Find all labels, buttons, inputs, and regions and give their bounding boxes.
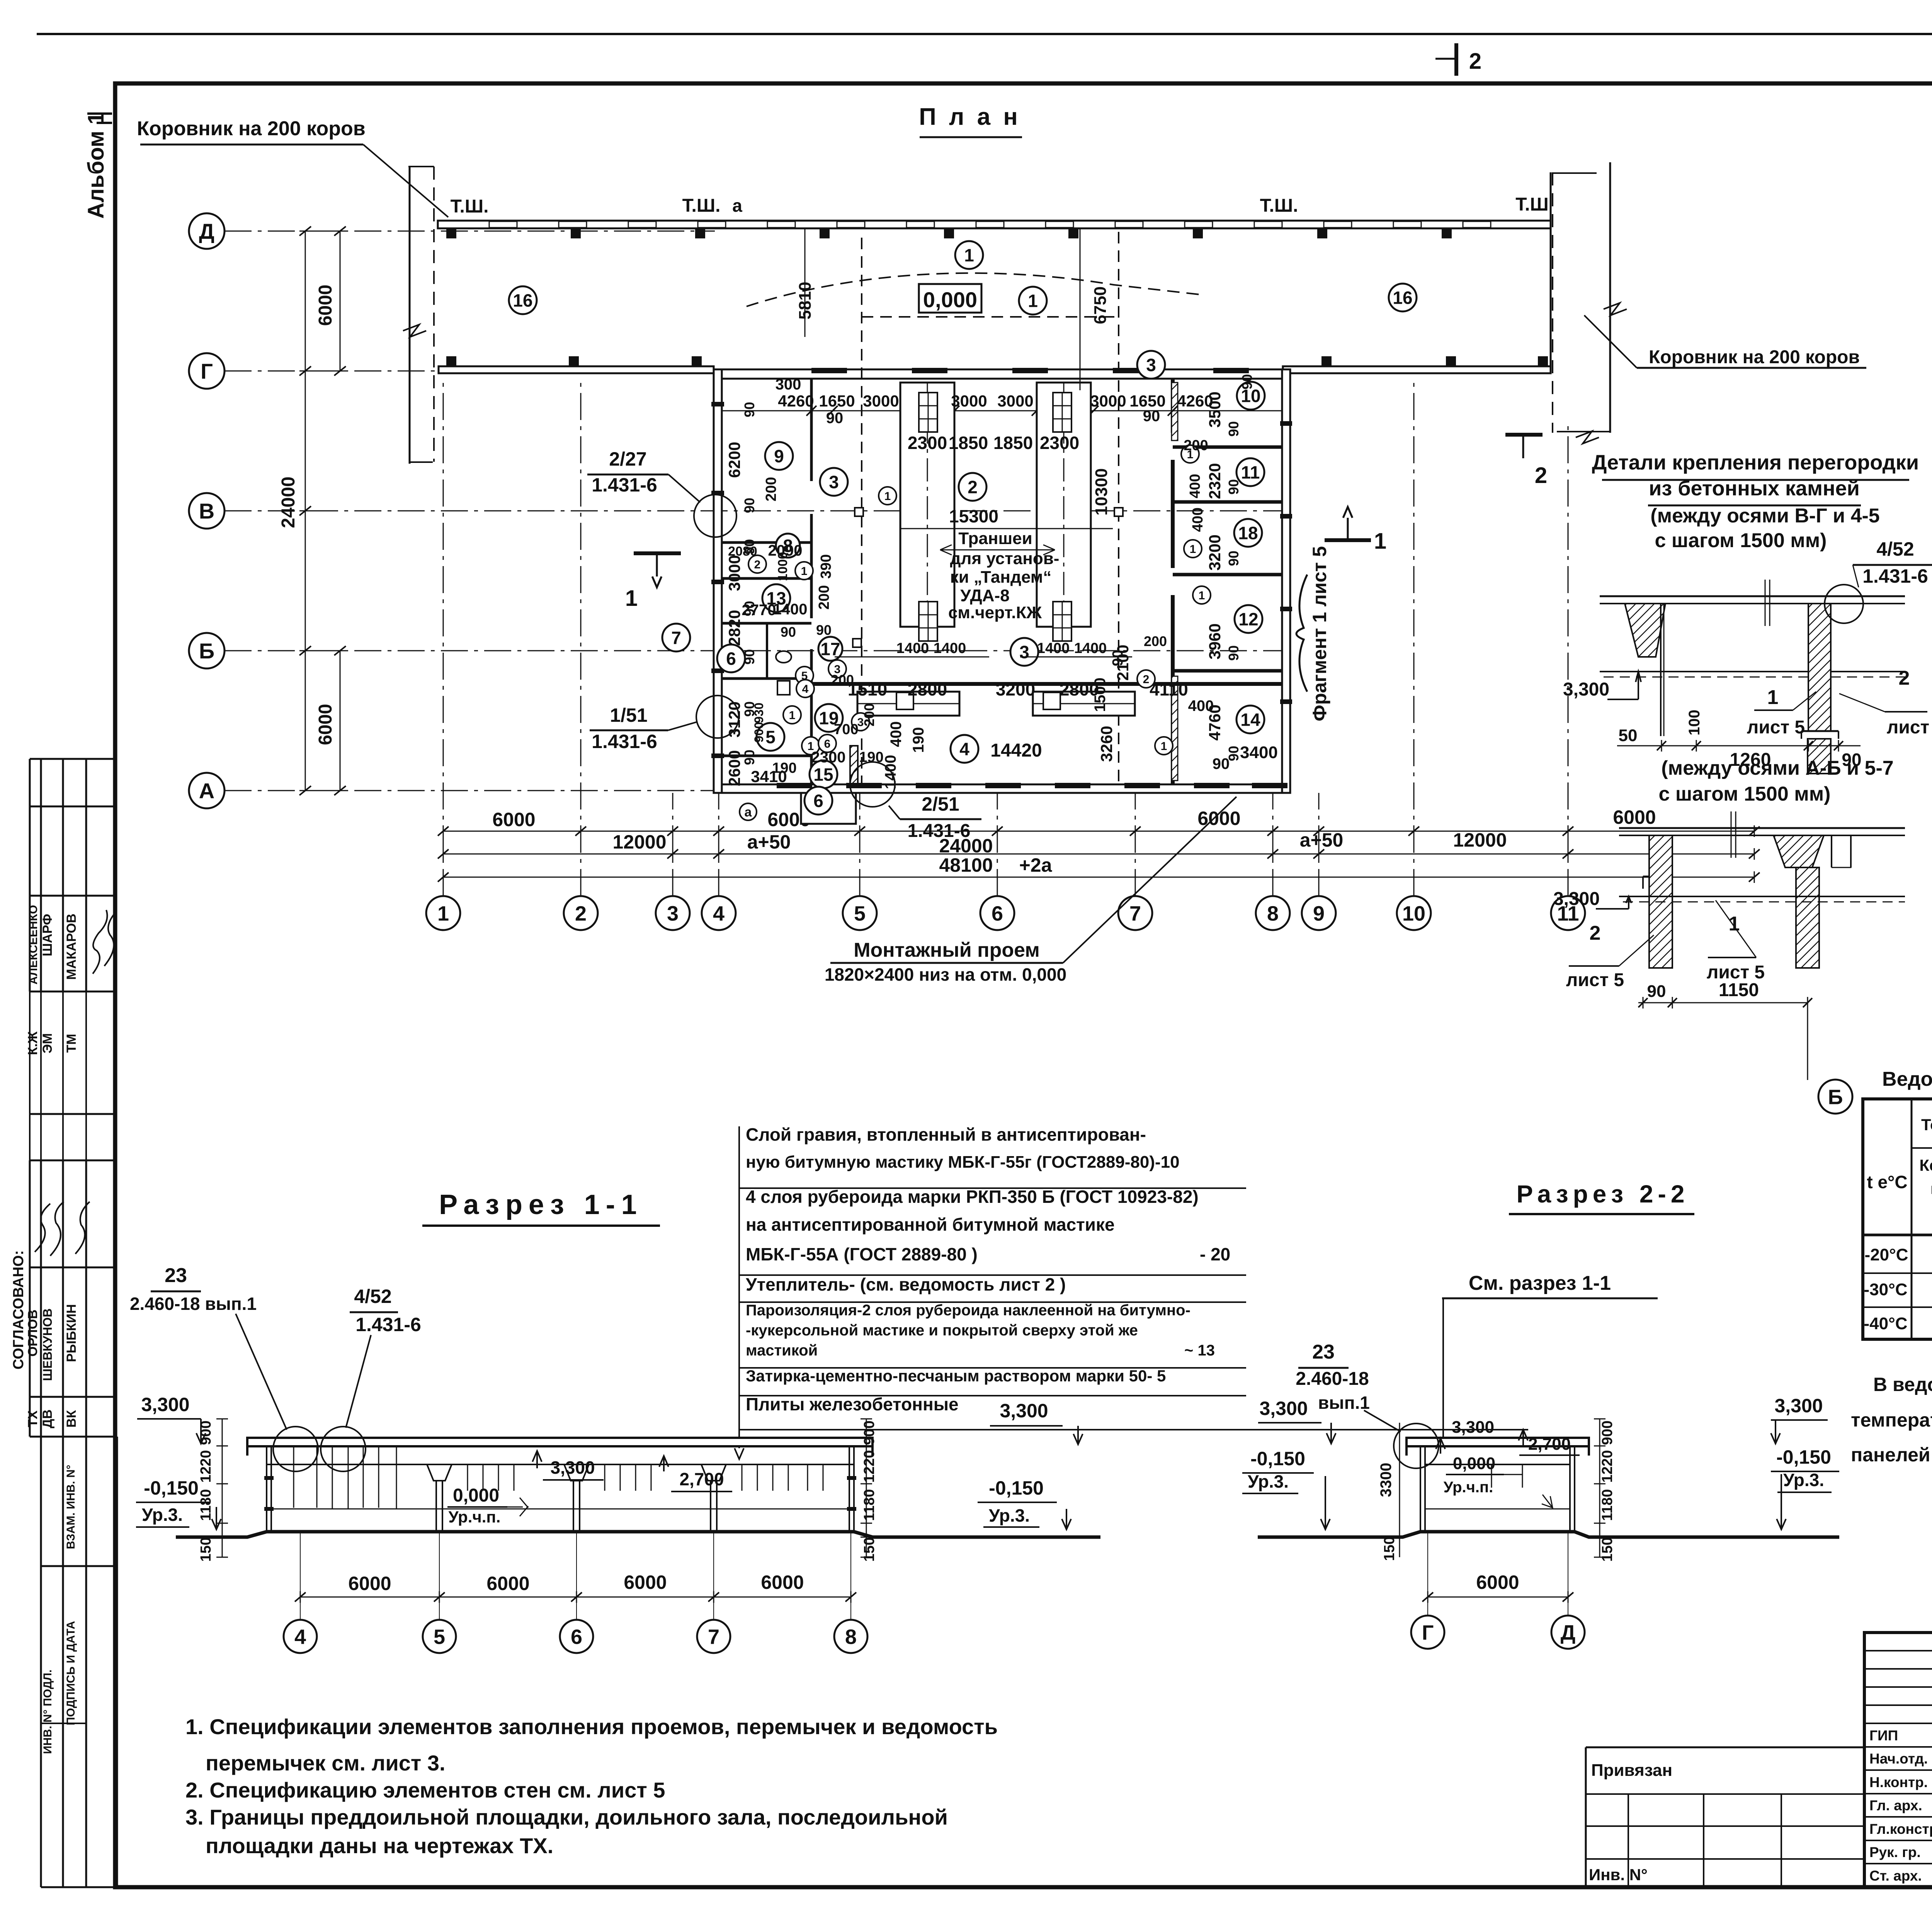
door mark 1 (783, 706, 801, 724)
room circle 16 (1389, 284, 1417, 311)
small axis a bottom (740, 803, 757, 820)
svg-text:Ур.3.: Ур.3. (1248, 1471, 1289, 1492)
axis line 1 (443, 383, 444, 896)
svg-text:4: 4 (294, 1625, 306, 1648)
svg-text:6000: 6000 (624, 1571, 667, 1593)
svg-text:90: 90 (781, 624, 796, 640)
section mark 1 left (634, 551, 681, 555)
svg-text:190: 190 (772, 760, 796, 776)
axis circle G razrez (1411, 1616, 1444, 1649)
left edge stamp group 3 (Согласовано) (30, 1160, 117, 1162)
svg-text:2,700: 2,700 (1528, 1435, 1571, 1454)
axis line 4 (718, 793, 719, 896)
trench right (1037, 383, 1091, 627)
svg-text:2080: 2080 (728, 544, 757, 559)
svg-text:6: 6 (726, 649, 736, 669)
svg-text:90: 90 (1110, 650, 1126, 666)
svg-text:5: 5 (434, 1625, 445, 1648)
svg-text:2770: 2770 (742, 602, 776, 619)
svg-text:Разрез 1-1: Разрез 1-1 (439, 1189, 643, 1220)
svg-text:ТМ: ТМ (64, 1034, 79, 1053)
svg-text:700: 700 (834, 721, 858, 738)
svg-text:11: 11 (1241, 463, 1260, 483)
svg-text:1: 1 (801, 565, 808, 578)
svg-text:900: 900 (198, 1420, 214, 1445)
svg-text:3: 3 (829, 472, 839, 492)
axis circle D razrez (1551, 1616, 1585, 1649)
ground line 1-1 (176, 1532, 1100, 1537)
svg-text:6000: 6000 (761, 1571, 804, 1593)
svg-text:см.черт.КЖ: см.черт.КЖ (948, 603, 1042, 622)
interior dim chain under top wall (722, 410, 1282, 412)
axis line 9 (1318, 793, 1320, 896)
right cowshed wall (1609, 162, 1611, 433)
svg-text:(между осями В-Г и 4-5: (между осями В-Г и 4-5 (1650, 505, 1879, 527)
room circle 3 (820, 468, 848, 496)
svg-text:2,700: 2,700 (679, 1469, 724, 1489)
svg-text:4: 4 (802, 683, 809, 696)
axis line 8 (1272, 793, 1274, 896)
svg-text:t e°C: t e°C (1867, 1172, 1907, 1192)
svg-text:-30°С: -30°С (1864, 1280, 1908, 1299)
axis circle 7 (1118, 896, 1152, 930)
break mark right wall 2 (1576, 431, 1599, 444)
room circle 7 (662, 624, 690, 651)
room circle 16 (509, 286, 537, 314)
svg-text:90: 90 (816, 622, 832, 638)
room circle 5 (757, 723, 784, 751)
left cowshed wall (409, 167, 411, 464)
svg-text:90: 90 (1226, 551, 1242, 566)
svg-text:1220: 1220 (861, 1450, 878, 1483)
svg-text:1180: 1180 (198, 1489, 214, 1521)
room circle 15 (810, 760, 837, 788)
svg-text:лист 5: лист 5 (1566, 970, 1624, 990)
svg-text:ПОДПИСЬ И ДАТА: ПОДПИСЬ И ДАТА (65, 1621, 77, 1725)
svg-text:4110: 4110 (1150, 679, 1188, 699)
leader to opening (1063, 797, 1236, 963)
left edge stamp group 1 (30, 758, 117, 760)
door mark 2 (1137, 670, 1155, 688)
0.000 level box (919, 284, 981, 313)
svg-text:8: 8 (845, 1625, 857, 1648)
toilet fixtures (776, 651, 791, 663)
svg-text:Монтажный проем: Монтажный проем (854, 939, 1040, 961)
svg-text:Альбом 1: Альбом 1 (83, 112, 109, 219)
svg-text:3960: 3960 (1206, 623, 1224, 659)
svg-text:3,300: 3,300 (1259, 1398, 1308, 1419)
room circle 6 (804, 787, 832, 815)
svg-text:5: 5 (854, 902, 866, 925)
svg-text:400: 400 (1188, 697, 1214, 714)
svg-text:-кукерсольной мастике и покрыт: -кукерсольной мастике и покрытой сверху … (746, 1322, 1138, 1339)
svg-text:а: а (732, 196, 742, 216)
svg-text:90: 90 (742, 498, 757, 513)
svg-text:1: 1 (625, 586, 638, 611)
svg-text:9: 9 (774, 446, 784, 466)
svg-text:6: 6 (992, 902, 1003, 925)
axis circle В (189, 493, 224, 529)
svg-text:10: 10 (1402, 902, 1425, 925)
svg-text:Б: Б (1828, 1085, 1843, 1109)
door mark 2 (748, 555, 766, 573)
svg-text:6000: 6000 (1476, 1571, 1519, 1593)
svg-text:2600: 2600 (725, 750, 743, 786)
svg-text:1400: 1400 (773, 601, 808, 618)
axis line 6 (997, 793, 998, 896)
benches bottom (857, 692, 959, 716)
svg-text:Утеплитель- (см. ведомость лис: Утеплитель- (см. ведомость лист 2 ) (746, 1274, 1066, 1294)
column markers on dashed boundary (855, 508, 863, 516)
svg-text:-0,150: -0,150 (1250, 1448, 1305, 1469)
room circle 3 (1010, 638, 1038, 666)
building top wall (714, 369, 1290, 379)
svg-text:-0,150: -0,150 (1776, 1446, 1831, 1468)
axis line Б (224, 650, 1291, 651)
svg-text:+2а: +2а (1019, 854, 1053, 876)
svg-text:ШЕВКУНОВ: ШЕВКУНОВ (41, 1308, 54, 1381)
svg-text:1150: 1150 (1719, 980, 1759, 1000)
dim ext line 5810 (804, 229, 806, 337)
dim ext line 6750 (1080, 229, 1081, 390)
svg-text:лист 5: лист 5 (1887, 717, 1932, 738)
left edge stamp band (29, 1114, 31, 1160)
svg-text:200: 200 (1184, 437, 1208, 454)
svg-text:2: 2 (575, 902, 587, 925)
svg-text:390: 390 (818, 554, 834, 578)
svg-text:1: 1 (437, 902, 449, 925)
svg-text:УДА-8: УДА-8 (960, 586, 1009, 605)
svg-text:200: 200 (763, 477, 779, 501)
axis circle Г (189, 353, 224, 389)
svg-text:3200: 3200 (1206, 534, 1224, 570)
svg-text:150: 150 (1599, 1537, 1616, 1561)
plan bottom dimension chains (443, 831, 1754, 832)
section mark 1 right (1325, 538, 1371, 542)
svg-text:Детали крепления перегородки: Детали крепления перегородки (1592, 451, 1919, 474)
svg-text:2: 2 (1469, 49, 1481, 74)
svg-text:4: 4 (713, 902, 724, 925)
svg-text:0,000: 0,000 (453, 1485, 499, 1506)
svg-text:90: 90 (1226, 479, 1242, 495)
axis circle 1 (426, 896, 460, 930)
svg-text:6000: 6000 (1613, 806, 1656, 828)
svg-text:90: 90 (1226, 746, 1242, 761)
left block horizontal partitions (722, 541, 811, 544)
right gallery bottom wall (1283, 366, 1551, 373)
svg-text:-0,150: -0,150 (144, 1477, 199, 1499)
window marks left wall (711, 402, 724, 406)
axis circle А (189, 773, 224, 808)
svg-text:Г: Г (1422, 1621, 1434, 1644)
svg-text:температуры наружного воздуха,: температуры наружного воздуха, при котор… (1851, 1409, 1932, 1431)
svg-text:3: 3 (1146, 355, 1156, 375)
svg-text:1650: 1650 (819, 392, 855, 410)
svg-text:3200: 3200 (996, 679, 1035, 699)
axis line Д (224, 231, 715, 232)
svg-text:вып.1: вып.1 (1318, 1393, 1370, 1413)
door mark 3 (852, 713, 869, 731)
svg-text:9: 9 (1313, 902, 1325, 925)
svg-text:1850: 1850 (993, 433, 1033, 453)
svg-text:2/27: 2/27 (609, 448, 646, 470)
svg-text:К.Ж: К.Ж (26, 1031, 40, 1055)
svg-text:Гл.констр.: Гл.констр. (1869, 1821, 1932, 1837)
svg-text:СОГЛАСОВАНО:: СОГЛАСОВАНО: (10, 1250, 27, 1370)
svg-text:1650: 1650 (1129, 392, 1165, 410)
axis circle 4 razrez (284, 1620, 317, 1653)
svg-text:23: 23 (1312, 1341, 1335, 1363)
svg-text:3120: 3120 (725, 701, 743, 737)
room circle 10 (1237, 382, 1265, 410)
svg-text:2800: 2800 (908, 679, 947, 699)
svg-text:ки „Тандем“: ки „Тандем“ (950, 568, 1052, 587)
svg-text:Т.Ш.: Т.Ш. (451, 196, 489, 217)
svg-text:Д: Д (1561, 1621, 1575, 1644)
svg-text:2: 2 (1590, 922, 1601, 944)
dim line 15300 (900, 528, 1113, 529)
svg-text:панели Q=900 кг/м: панели Q=900 кг/м (1930, 1180, 1932, 1197)
svg-text:6: 6 (571, 1625, 582, 1648)
axis circle 6 razrez (560, 1620, 593, 1653)
svg-text:АЛЕКСЕЕНКО: АЛЕКСЕЕНКО (27, 905, 40, 985)
svg-text:90: 90 (826, 410, 844, 427)
tambur room 15 (801, 793, 856, 824)
svg-text:Ведомость толщин стен и утепли: Ведомость толщин стен и утеплителя (1882, 1068, 1932, 1090)
svg-text:90: 90 (1239, 374, 1255, 389)
room4 top wall (811, 682, 1282, 686)
svg-text:1: 1 (884, 490, 891, 503)
svg-text:14420: 14420 (990, 740, 1042, 761)
door mark 1 (1155, 737, 1173, 755)
svg-text:200: 200 (831, 672, 854, 688)
roof spec text block (738, 1126, 740, 1430)
svg-text:5: 5 (765, 727, 776, 747)
gallery end cap right (1550, 172, 1552, 374)
svg-text:Траншеи: Траншеи (958, 529, 1032, 548)
door mark 1 (1184, 540, 1202, 558)
svg-text:16: 16 (1393, 288, 1412, 308)
right strip partition vertical (1171, 379, 1175, 433)
svg-text:1.431-6: 1.431-6 (592, 474, 657, 496)
svg-text:4/52: 4/52 (1876, 538, 1914, 560)
axis circle Д (189, 213, 224, 249)
svg-text:-0,150: -0,150 (989, 1477, 1044, 1499)
gallery posts top (446, 228, 456, 238)
room circle 14 (1236, 706, 1264, 733)
axis circle 8 (1256, 896, 1290, 930)
svg-text:6000: 6000 (486, 1573, 529, 1594)
svg-text:ВЗАМ. ИНВ. N°: ВЗАМ. ИНВ. N° (65, 1465, 77, 1549)
axis circle 5 razrez (423, 1620, 456, 1653)
svg-text:ЭМ: ЭМ (40, 1033, 55, 1054)
break mark right wall (1604, 303, 1627, 315)
door mark 3 (828, 660, 846, 678)
svg-text:с шагом 1500 мм): с шагом 1500 мм) (1655, 529, 1827, 552)
door mark 4 (796, 680, 814, 697)
axis circle 5 (843, 896, 877, 930)
svg-text:Б: Б (199, 639, 214, 663)
svg-text:0,000: 0,000 (923, 287, 977, 312)
svg-text:1850: 1850 (949, 433, 988, 453)
svg-text:1.431-6: 1.431-6 (592, 731, 657, 752)
axis circle 6 (980, 896, 1014, 930)
svg-text:3,300: 3,300 (550, 1458, 595, 1478)
svg-text:2300: 2300 (908, 433, 947, 453)
svg-text:(между осями А-Б и 5-7: (между осями А-Б и 5-7 (1661, 757, 1893, 779)
svg-text:12000: 12000 (1453, 829, 1507, 851)
svg-text:150: 150 (198, 1537, 214, 1561)
door mark 1 (1181, 445, 1199, 463)
svg-text:90: 90 (1143, 408, 1160, 425)
tambour side wall hatched (850, 746, 858, 784)
svg-text:200: 200 (1144, 633, 1167, 649)
svg-text:из бетонных камней: из бетонных камней (1649, 477, 1860, 500)
left edge stamp group 4 (40, 1437, 42, 1887)
svg-text:400: 400 (1190, 507, 1206, 532)
svg-text:а+50: а+50 (747, 831, 791, 853)
svg-text:3400: 3400 (1240, 743, 1278, 762)
room circle 19 (815, 704, 843, 732)
svg-text:7: 7 (708, 1625, 719, 1648)
svg-text:3,300: 3,300 (141, 1394, 189, 1415)
axis line 2 (580, 383, 582, 896)
svg-text:Ур.3.: Ур.3. (142, 1505, 183, 1525)
door mark 1 (879, 487, 896, 505)
svg-text:1: 1 (1199, 589, 1205, 602)
room circle 12 (1235, 605, 1262, 633)
building right wall (1282, 369, 1290, 793)
svg-text:МБК-Г-55А (ГОСТ 2889-80 ): МБК-Г-55А (ГОСТ 2889-80 ) (746, 1244, 978, 1264)
detail B drawing (1619, 827, 1905, 829)
svg-text:900: 900 (861, 1420, 878, 1445)
door mark 6 (818, 735, 836, 752)
svg-text:для установ-: для установ- (950, 549, 1060, 568)
axis line В (224, 510, 1291, 512)
svg-text:Д: Д (199, 219, 214, 243)
room circle 8 (776, 534, 800, 558)
axis line 11 (1568, 421, 1569, 896)
svg-text:1820×2400 низ на отм. 0,000: 1820×2400 низ на отм. 0,000 (825, 964, 1066, 985)
right strip horizontal partitions (1173, 446, 1282, 449)
svg-text:100: 100 (1686, 710, 1703, 736)
svg-text:2320: 2320 (1206, 463, 1224, 499)
svg-text:1: 1 (1767, 686, 1779, 709)
left vertical dim lines (305, 231, 306, 791)
svg-text:Инв. N°: Инв. N° (1589, 1866, 1648, 1884)
svg-text:3,300: 3,300 (1774, 1395, 1823, 1417)
svg-text:Т.Ш.: Т.Ш. (1260, 196, 1298, 216)
svg-text:4: 4 (959, 739, 969, 759)
axis circle Б (189, 633, 224, 668)
svg-text:А: А (199, 779, 214, 803)
svg-text:П л а н: П л а н (919, 104, 1021, 130)
svg-text:1000: 1000 (776, 552, 790, 581)
svg-text:Пароизоляция-2 слоя рубероида: Пароизоляция-2 слоя рубероида наклеенной… (746, 1302, 1190, 1319)
svg-text:ШАРФ: ШАРФ (40, 914, 55, 956)
svg-text:3000: 3000 (997, 392, 1033, 410)
svg-text:4 слоя рубероида марки РКП-350: 4 слоя рубероида марки РКП-350 Б (ГОСТ 1… (746, 1187, 1199, 1207)
svg-text:3000: 3000 (951, 392, 987, 410)
svg-text:24000: 24000 (278, 476, 299, 528)
svg-text:15: 15 (813, 765, 833, 785)
svg-text:2.460-18 вып.1: 2.460-18 вып.1 (130, 1294, 257, 1314)
svg-text:Ур.ч.п.: Ур.ч.п. (449, 1508, 501, 1526)
svg-text:190: 190 (910, 727, 927, 753)
room circle 3 (1137, 351, 1165, 379)
section mark 2 top (1454, 43, 1458, 76)
svg-text:ВК: ВК (64, 1410, 79, 1428)
svg-text:перемычек см. лист 3.: перемычек см. лист 3. (206, 1751, 446, 1775)
svg-text:900: 900 (1599, 1420, 1616, 1445)
svg-text:1: 1 (1190, 543, 1196, 556)
left wall section (266, 1446, 267, 1531)
svg-text:Затирка-цементно-песчаным раст: Затирка-цементно-песчаным раствором марк… (746, 1367, 1166, 1385)
svg-text:ДВ: ДВ (40, 1410, 55, 1429)
detail A column (1808, 604, 1831, 731)
svg-text:1400: 1400 (1074, 640, 1107, 656)
svg-text:а+50: а+50 (1300, 829, 1344, 851)
svg-text:ОРЛОВ: ОРЛОВ (26, 1310, 40, 1357)
svg-text:лист 5: лист 5 (1747, 717, 1805, 738)
svg-text:3000: 3000 (725, 555, 743, 591)
svg-text:3000: 3000 (863, 392, 899, 410)
room circle 2 (959, 473, 986, 501)
svg-text:Ур.3.: Ур.3. (1783, 1470, 1824, 1490)
svg-text:1180: 1180 (1599, 1489, 1616, 1521)
axis circle 9 (1302, 896, 1336, 930)
axis circle B detail (1818, 1080, 1852, 1114)
room circle 1 (1019, 287, 1047, 315)
interior partition vertical left block (810, 379, 813, 481)
room circle 17 (818, 637, 842, 661)
svg-text:Керамзитобетонные: Керамзитобетонные (1919, 1156, 1932, 1174)
gallery top wall (438, 221, 1551, 228)
svg-text:6000: 6000 (348, 1573, 391, 1594)
svg-text:Т.Ш: Т.Ш (1515, 194, 1548, 215)
svg-text:200: 200 (861, 703, 877, 726)
ground line 2-2 (1258, 1532, 1839, 1537)
axis line 10 (1413, 383, 1415, 896)
svg-text:1400: 1400 (896, 640, 929, 656)
svg-text:3: 3 (1019, 642, 1029, 662)
svg-text:2: 2 (968, 477, 978, 497)
door mark 5 (796, 667, 813, 684)
svg-text:18: 18 (1238, 523, 1258, 543)
dim cols 2-2 (1599, 1419, 1600, 1557)
svg-text:6: 6 (813, 791, 823, 811)
svg-text:Ур.3.: Ур.3. (989, 1505, 1030, 1526)
svg-text:3,300: 3,300 (1452, 1418, 1494, 1437)
svg-text:1: 1 (1161, 740, 1167, 753)
left edge stamp group 2 (30, 1113, 117, 1115)
building bottom wall (714, 784, 1290, 793)
axis line А (224, 790, 1291, 791)
svg-text:12000: 12000 (612, 831, 666, 853)
detail B column left (1649, 835, 1672, 968)
svg-text:1500: 1500 (1092, 678, 1109, 712)
svg-text:Плиты железобетонные: Плиты железобетонные (746, 1394, 959, 1414)
svg-text:на антисептированной битумной: на антисептированной битумной мастике (746, 1214, 1115, 1235)
window marks bottom wall (777, 783, 812, 788)
svg-text:1: 1 (1028, 291, 1038, 311)
door mark 1 (802, 737, 820, 755)
2.700 label (659, 1456, 668, 1471)
axis line 7 (1135, 793, 1136, 896)
svg-text:90: 90 (742, 649, 757, 665)
axis circle 10 (1397, 896, 1431, 930)
svg-text:8: 8 (1267, 902, 1279, 925)
